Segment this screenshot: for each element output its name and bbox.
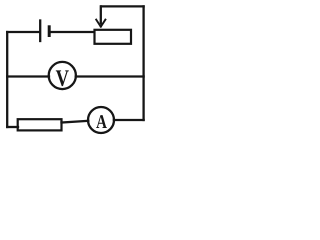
wire bottom-left to resistor [7, 126, 18, 128]
voltmeter label V (Liberation Serif Bold outline) [56, 70, 69, 86]
voltmeter V circle [49, 62, 76, 89]
battery cell B1 short plate [48, 27, 51, 36]
wire top horizontal [101, 5, 143, 7]
wire middle voltmeter to right [76, 75, 144, 77]
wire left vertical [6, 32, 8, 127]
rheostat R1 body [95, 30, 132, 44]
resistor R body [18, 119, 62, 130]
ammeter label A (Liberation Serif Bold outline) [96, 115, 107, 128]
battery cell B1 long plate [39, 21, 41, 42]
rheostat slider arrow shaft [100, 6, 102, 23]
wire right vertical [142, 6, 144, 120]
wire ammeter to right corner [114, 119, 144, 121]
wire resistor to ammeter [62, 121, 89, 123]
ammeter A circle [88, 107, 114, 133]
wire top-left to battery [7, 31, 39, 33]
wire battery to rheostat [49, 31, 94, 33]
wire middle left to voltmeter [7, 75, 49, 77]
rheostat slider arrowhead [96, 20, 105, 27]
